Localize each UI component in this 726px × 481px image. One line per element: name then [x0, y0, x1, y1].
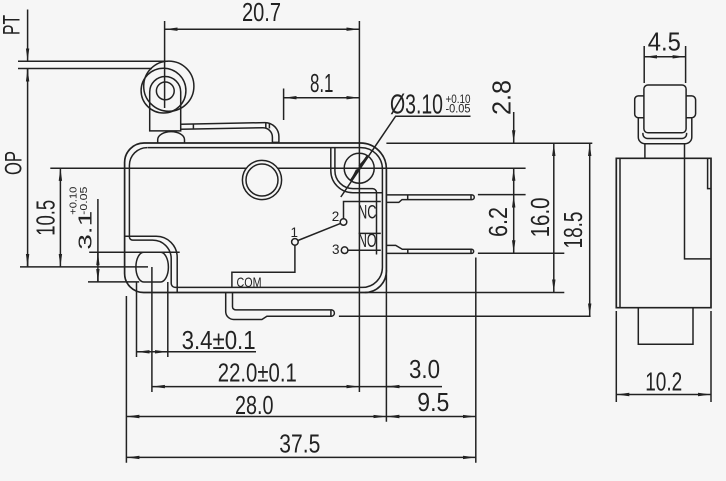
svg-text:+0.10: +0.10	[69, 186, 80, 214]
NC tip reference line	[478, 194, 526, 196]
extension line hole left edge	[136, 282, 138, 357]
COM strip tick	[330, 310, 332, 316]
lever fork bracket	[150, 77, 181, 131]
wire node1 to COM	[232, 245, 295, 287]
dimension 20.7	[165, 28, 360, 30]
diameter arrows inside hole	[359, 156, 368, 169]
lever arm bottom edge	[181, 128, 279, 143]
side view fork inner	[643, 133, 687, 139]
NO prong ticks	[408, 249, 471, 253]
svg-text:20.7: 20.7	[242, 0, 281, 27]
svg-text:Ø3.10: Ø3.10	[390, 89, 443, 120]
roller circle free position	[144, 61, 194, 111]
dimension 28.0	[126, 416, 386, 418]
svg-text:COM: COM	[237, 274, 262, 290]
lever operating tangent line lower	[18, 68, 152, 70]
side view fork outer	[638, 118, 692, 144]
side view bottom block	[638, 308, 693, 345]
svg-text:4.5: 4.5	[648, 27, 681, 57]
lever free-position tangent line upper	[18, 60, 168, 62]
hole center y reference line left	[20, 266, 148, 268]
svg-text:22.0±0.1: 22.0±0.1	[218, 358, 297, 388]
lever arm top edge with hook	[181, 123, 279, 143]
leader line hole diameter	[341, 116, 471, 197]
COM bottom reference line	[339, 315, 591, 317]
svg-text:37.5: 37.5	[279, 428, 320, 458]
bottom-left ear outer step	[125, 236, 178, 292]
svg-text:PT: PT	[0, 15, 26, 35]
svg-text:3.4±0.1: 3.4±0.1	[182, 325, 256, 355]
svg-text:6.2: 6.2	[483, 207, 513, 237]
dimension 9.5	[386, 416, 475, 418]
wire node3 to NO	[348, 249, 381, 251]
svg-text:NC: NC	[358, 203, 377, 224]
svg-text:10.5: 10.5	[31, 200, 61, 236]
OP dimension line	[27, 69, 29, 267]
roller pin	[156, 82, 174, 100]
hole center x reference line left	[50, 167, 525, 169]
extension lines 4.5	[644, 46, 685, 83]
hole top reference line	[89, 251, 180, 253]
svg-text:2.8: 2.8	[487, 80, 517, 115]
button boss outer circle	[242, 160, 281, 199]
side view pin tab left	[635, 96, 644, 118]
svg-text:28.0: 28.0	[235, 390, 274, 420]
circuit node 3	[341, 247, 348, 254]
svg-text:10.2: 10.2	[645, 367, 682, 397]
svg-text:9.5: 9.5	[417, 387, 449, 417]
svg-text:3.0: 3.0	[409, 354, 440, 384]
wire node2 to NC	[344, 202, 381, 219]
mounting hole bottom-left (obround)	[136, 252, 169, 282]
side view right tab	[708, 158, 711, 188]
side view body	[616, 158, 711, 307]
circuit node 1	[292, 239, 299, 246]
extension line lever end	[283, 89, 285, 121]
dimension 18.5	[589, 143, 591, 316]
svg-text:8.1: 8.1	[310, 68, 334, 98]
side view stem	[645, 144, 685, 159]
extension line prong tips	[475, 258, 477, 463]
side view roller	[644, 85, 686, 133]
dimension 2.8	[513, 112, 515, 143]
svg-text:-0.05: -0.05	[79, 186, 90, 215]
dimension 3.0	[359, 386, 442, 388]
svg-text:1: 1	[290, 225, 298, 240]
lever arm bend tick	[192, 124, 194, 129]
extension line body right	[385, 270, 387, 422]
dimension 6.2	[513, 195, 515, 254]
mounting hole top-right	[344, 153, 374, 183]
extension line hole right edge	[167, 282, 169, 357]
svg-text:2: 2	[332, 209, 340, 224]
dimension 37.5	[126, 456, 475, 458]
dimension 8.1	[284, 97, 360, 99]
switch blade 1-2	[298, 223, 341, 240]
switch body inner outline	[129, 148, 382, 288]
side view internal L line	[685, 158, 712, 259]
side view pin tab right	[686, 96, 696, 118]
dimension 10.5	[59, 168, 61, 267]
extension lines 10.2	[616, 311, 711, 402]
svg-text:18.5: 18.5	[558, 212, 588, 249]
top reference line right	[386, 142, 592, 144]
dimension 3.4	[137, 351, 257, 353]
inner right pocket wall	[331, 148, 383, 193]
NC terminal prong	[386, 195, 474, 203]
switch body outer outline	[125, 143, 387, 293]
dimension 4.5	[644, 56, 685, 58]
svg-text:16.0: 16.0	[525, 197, 555, 237]
hole boss inner line	[335, 148, 377, 255]
svg-text:-0.05: -0.05	[446, 104, 471, 116]
dimension 3.1	[97, 199, 99, 282]
circuit node 2	[340, 219, 347, 226]
COM terminal bent strip	[226, 293, 335, 320]
svg-text:NO: NO	[358, 231, 377, 252]
lever hook bend ticks	[266, 123, 270, 129]
NC prong ticks	[408, 195, 471, 200]
dimension 16.0	[553, 143, 555, 292]
hole bottom reference line	[88, 281, 139, 283]
dimension 10.2	[616, 394, 711, 396]
NO bottom reference line	[478, 252, 564, 254]
NC box underline	[359, 232, 381, 234]
button boss inner circle	[246, 164, 278, 196]
svg-text:3.1: 3.1	[76, 211, 96, 250]
extension line hole center bottom	[151, 267, 153, 392]
plunger dome	[158, 132, 185, 143]
roller circle operating position	[141, 68, 186, 113]
extension line roller pin center	[164, 21, 166, 108]
side view body inner left	[619, 158, 621, 307]
NO terminal prong	[386, 245, 473, 253]
svg-text:OP: OP	[1, 151, 28, 175]
PT dimension line top	[27, 10, 29, 62]
extension line body left	[125, 296, 127, 463]
extension line hole center vertical	[358, 21, 360, 392]
body bottom reference right	[365, 292, 564, 294]
dimension 22.0	[152, 386, 360, 388]
svg-text:3: 3	[332, 242, 340, 257]
